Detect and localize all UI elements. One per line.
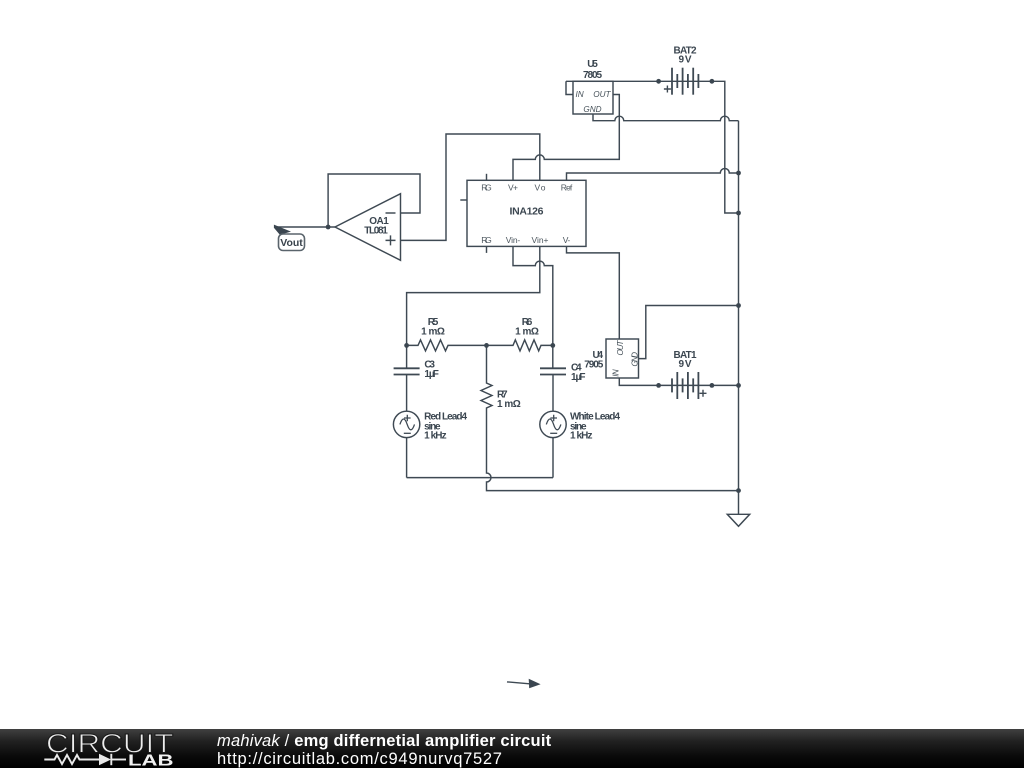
BAT2 plus sign (664, 86, 671, 93)
node: BAT2 plus terminal (656, 79, 661, 84)
labels (364, 46, 697, 370)
BAT1 plus sign (700, 390, 707, 397)
wire: INA126 V- down right to U4 OUT (567, 246, 620, 339)
svg-text:Ref: Ref (561, 183, 573, 193)
INA126 pin stub: left tick (460, 199, 467, 201)
op-amp minus input glyph (386, 212, 396, 214)
wire: C3 leads (406, 345, 408, 411)
wire: Red Lead4 bottom to common (406, 438, 408, 478)
ground symbol (727, 514, 749, 526)
op-amp plus input glyph (386, 235, 396, 245)
node: C4/R6 top (550, 343, 555, 348)
wire: INA126 Vin+ down left to C3 top node (407, 246, 540, 345)
svg-text:Vin-: Vin- (506, 235, 521, 245)
wire: INA126 Ref to negative rail (hops over BAT2- wire) (567, 169, 739, 181)
node Vout flag box (279, 234, 305, 251)
cursor arrow head (529, 679, 541, 688)
svg-text:1 mΩ: 1 mΩ (515, 326, 539, 337)
node: rail at U4 GND (736, 303, 741, 308)
svg-text:GND: GND (630, 352, 639, 367)
wire: U5 IN stub up to top rail (566, 81, 573, 94)
capacitor C3 plates (394, 368, 420, 374)
node flag Vout pointer (274, 225, 291, 235)
INA126 pin stub: RG top (486, 174, 488, 181)
wire: C4 leads (552, 345, 554, 411)
voltage regulator U5 (7805) body (573, 81, 613, 114)
wire: U5 OUT down to INA126 V+ pin (with hop over Vo wire) (513, 95, 619, 181)
svg-text:9 V: 9 V (679, 55, 692, 66)
svg-text:INA126: INA126 (510, 206, 544, 218)
svg-text:Vin+: Vin+ (532, 235, 549, 245)
node: BAT1 right terminal (710, 383, 715, 388)
wire: right negative rail (top corner at GND line down to ground) (738, 121, 740, 515)
svg-text:V+: V+ (508, 183, 518, 193)
svg-text:9 V: 9 V (679, 359, 692, 370)
node: rail at BAT2- (736, 211, 741, 216)
battery BAT2 cells (672, 68, 698, 95)
svg-text:1 µF: 1 µF (424, 369, 439, 380)
svg-text:RG: RG (481, 235, 492, 245)
svg-text:7905: 7905 (584, 360, 603, 371)
wire: U4 GND right up to negative rail (639, 306, 739, 359)
resistor R5 (407, 340, 487, 351)
svg-text:1 kHz: 1 kHz (424, 431, 447, 442)
svg-text:1 kHz: 1 kHz (570, 431, 593, 442)
CircuitLab logo (0, 729, 210, 768)
INA126 pin stub: RG bottom (486, 246, 488, 253)
op-amp OA1 TL081 triangle (335, 194, 401, 261)
svg-text:V-: V- (563, 235, 571, 245)
source Red Lead4 (sine) circle (393, 411, 419, 437)
voltage regulator U4 (7905) body (606, 339, 639, 378)
wire: U4 IN down right to BAT1 (619, 378, 658, 385)
svg-text:IN: IN (611, 369, 620, 377)
cursor arrow (507, 682, 531, 684)
instrumentation amplifier U1 INA126 body (467, 180, 586, 246)
svg-text:TL081: TL081 (364, 225, 388, 236)
node: C3/R5 top (404, 343, 409, 348)
wire: INA126 Vin- down right to C4 top node (hops over Vin+ wire) (513, 246, 553, 345)
battery BAT1 cells (672, 372, 698, 399)
svg-text:1 µF: 1 µF (571, 372, 586, 383)
U5 pin labels (576, 90, 612, 114)
capacitor C4 plates (540, 368, 566, 374)
node: BAT2 minus terminal (710, 79, 715, 84)
node: rail at Ref (736, 171, 741, 176)
footer bar (0, 729, 1024, 768)
svg-text:OUT: OUT (616, 339, 625, 355)
svg-text:Vout: Vout (280, 237, 303, 249)
svg-text:1 mΩ: 1 mΩ (421, 326, 445, 337)
svg-text:1 mΩ: 1 mΩ (497, 399, 521, 410)
svg-text:GND: GND (583, 105, 601, 114)
wire: INA126 Vo up and left to op-amp + input (401, 134, 540, 240)
wire: top rail from U5 to BAT2 plus terminal (566, 80, 659, 82)
wire: through BAT2 from left dot to right corner, down to negative rail junction (659, 81, 739, 213)
wire: through BAT1 to negative rail (659, 384, 739, 386)
node: rail at BAT1 (736, 383, 741, 388)
svg-text:LAB: LAB (128, 753, 174, 769)
svg-text:7805: 7805 (583, 70, 602, 81)
source White Lead4 (sine) circle (540, 411, 566, 437)
wire: feedback from - input up over to output node (328, 174, 420, 227)
svg-text:IN: IN (576, 90, 584, 99)
svg-text:Vo: Vo (535, 183, 546, 193)
INA126 pin labels (481, 183, 573, 246)
svg-text:RG: RG (481, 183, 492, 193)
svg-text:OUT: OUT (593, 90, 611, 99)
node: BAT1 left terminal (656, 383, 661, 388)
footer title (217, 732, 551, 751)
node: R7 top (484, 343, 489, 348)
wire: White Lead4 bottom to common (552, 438, 554, 478)
node: op-amp output junction (326, 225, 331, 230)
svg-text:U5: U5 (587, 59, 598, 70)
resistor R7 vertical with hop over source common wire (481, 345, 739, 490)
wire: op-amp output to Vout flag (275, 226, 335, 228)
resistor R6 (487, 340, 553, 351)
wire: source common horizontal (407, 477, 553, 479)
node: rail at ground wire (736, 488, 741, 493)
wire: U5 GND down then right to negative rail (hops over OUT wire and BAT2- wire) (593, 114, 739, 121)
U4 pin labels (rotated) (611, 339, 639, 376)
